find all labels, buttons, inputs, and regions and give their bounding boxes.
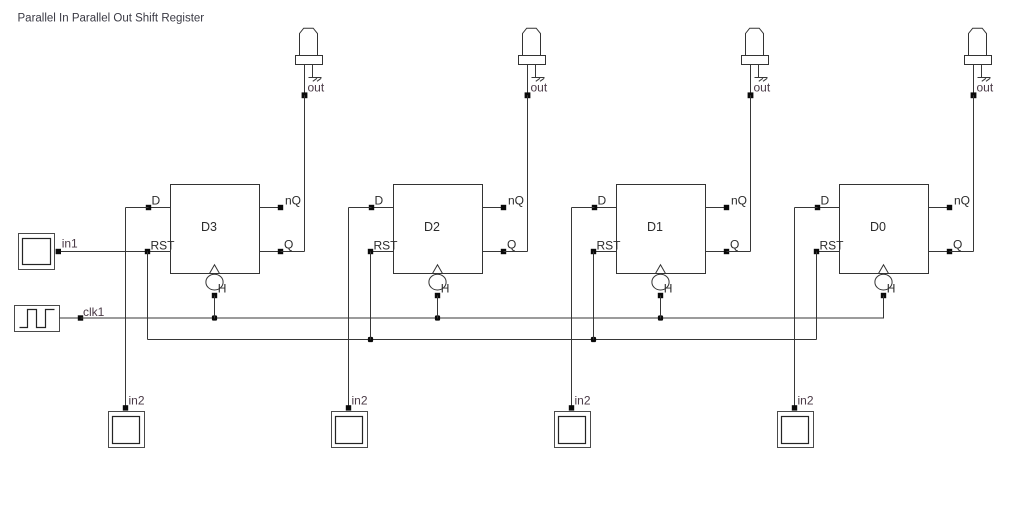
svg-text:in2: in2 xyxy=(575,394,591,408)
svg-text:clk1: clk1 xyxy=(83,305,105,319)
svg-text:D: D xyxy=(375,194,384,208)
svg-text:RST: RST xyxy=(151,239,176,253)
svg-text:nQ: nQ xyxy=(954,194,970,208)
svg-text:nQ: nQ xyxy=(731,194,747,208)
svg-text:in1: in1 xyxy=(62,237,78,251)
svg-text:H: H xyxy=(441,281,450,295)
svg-text:Q: Q xyxy=(953,238,962,252)
svg-text:in2: in2 xyxy=(798,394,814,408)
svg-text:D2: D2 xyxy=(424,220,440,234)
svg-text:RST: RST xyxy=(820,239,845,253)
svg-text:D: D xyxy=(152,194,161,208)
svg-text:RST: RST xyxy=(597,239,622,253)
svg-text:out: out xyxy=(308,81,325,95)
svg-text:D1: D1 xyxy=(647,220,663,234)
svg-text:H: H xyxy=(887,281,896,295)
svg-text:D3: D3 xyxy=(201,220,217,234)
svg-text:Q: Q xyxy=(284,238,293,252)
svg-text:H: H xyxy=(664,281,673,295)
svg-text:Parallel In Parallel Out Shift: Parallel In Parallel Out Shift Register xyxy=(18,12,205,24)
svg-text:D0: D0 xyxy=(870,220,886,234)
svg-text:H: H xyxy=(218,281,227,295)
svg-text:nQ: nQ xyxy=(508,194,524,208)
svg-text:D: D xyxy=(598,194,607,208)
svg-text:Q: Q xyxy=(507,238,516,252)
svg-text:RST: RST xyxy=(374,239,399,253)
svg-text:Q: Q xyxy=(730,238,739,252)
svg-text:out: out xyxy=(754,81,771,95)
svg-text:nQ: nQ xyxy=(285,194,301,208)
svg-text:D: D xyxy=(821,194,830,208)
svg-text:in2: in2 xyxy=(129,394,145,408)
svg-text:out: out xyxy=(531,81,548,95)
svg-text:out: out xyxy=(977,81,994,95)
svg-text:in2: in2 xyxy=(352,394,368,408)
